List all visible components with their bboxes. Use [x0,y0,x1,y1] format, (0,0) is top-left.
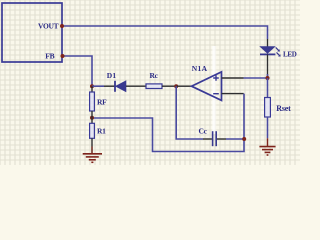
label Rc [150,71,159,80]
label R1 [97,127,106,136]
svg-text:Rc: Rc [150,71,159,80]
wire LED to sense node [267,74,269,78]
ground (below Rset) [259,138,275,155]
node LED/Rset junction [266,76,270,80]
diode D1 [104,81,146,92]
label D1 [107,71,117,80]
label Cc [199,127,208,136]
node FB junction [90,84,94,88]
junction FB pin [61,54,65,58]
wire FB node to D1 [92,85,104,87]
LED D2 [260,39,281,77]
resistor RF [90,86,95,118]
wire FB to feedback divider [63,56,93,86]
svg-text:R1: R1 [97,127,106,136]
regulator box U1 (VOUT/FB) [2,3,62,62]
svg-text:D1: D1 [107,71,117,80]
capacitor Cc [203,131,244,146]
svg-text:LED: LED [283,50,297,58]
resistor Rset [265,78,271,138]
svg-text:N1A: N1A [192,64,208,73]
junction VOUT pin [60,24,64,28]
wire op-amp - input loop to divider tap [92,94,244,152]
node compensation junction [174,84,178,88]
node divider tap junction [90,116,94,120]
wire compensation branch down to Cc [176,86,203,139]
svg-text:FB: FB [45,52,54,61]
ground (below R1) [83,147,102,163]
op-amp N1A [176,72,244,101]
label N1A [192,64,208,73]
pin label FB [45,52,54,61]
svg-text:VOUT: VOUT [38,22,59,31]
node Cc output junction [242,137,246,141]
svg-text:Cc: Cc [199,127,208,136]
svg-text:Rset: Rset [276,104,291,113]
label RF [97,97,107,106]
label LED [283,50,297,58]
wire VOUT to LED (top rail) [62,26,268,39]
label Rset [276,104,291,113]
pin label VOUT [38,22,59,31]
svg-text:RF: RF [97,97,107,106]
resistor Rc [146,84,176,89]
wire op-amp + input to LED node [244,77,268,79]
resistor R1 [90,118,95,147]
